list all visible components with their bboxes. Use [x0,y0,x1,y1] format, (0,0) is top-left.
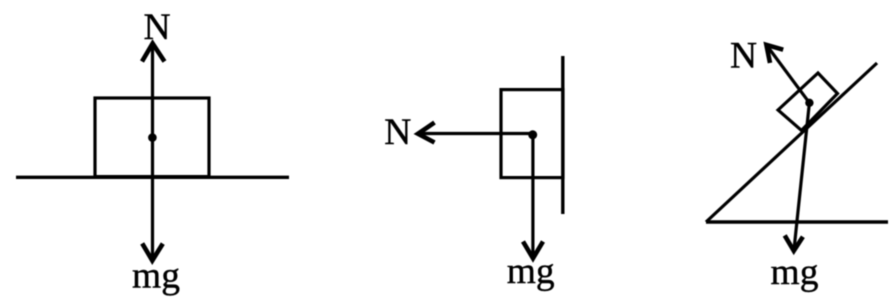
svg-text:N: N [384,112,411,153]
svg-text:N: N [143,7,170,48]
svg-text:mg: mg [507,251,555,292]
svg-text:N: N [730,36,757,77]
svg-text:mg: mg [771,252,819,293]
svg-text:mg: mg [132,255,180,296]
